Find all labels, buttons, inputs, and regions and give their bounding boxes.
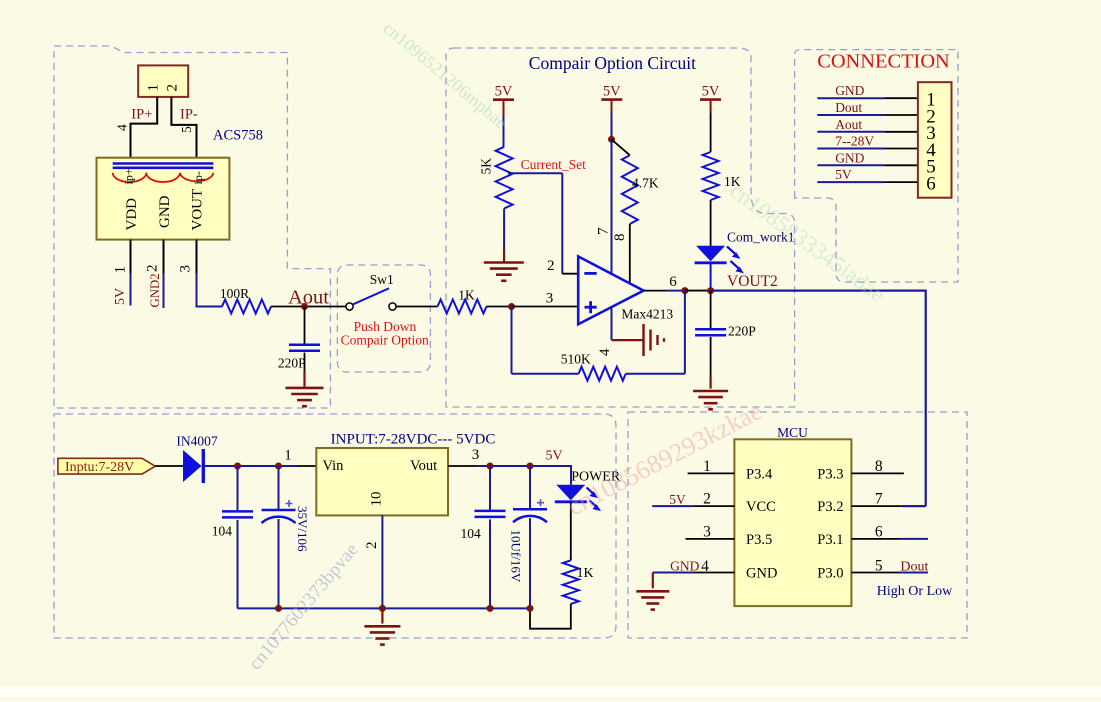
- IC U3 MCU body: [734, 439, 851, 606]
- svg-text:Current_Set: Current_Set: [521, 157, 586, 172]
- wire R5 to LED: [710, 200, 712, 246]
- svg-text:GND: GND: [835, 150, 864, 165]
- pin number 6: [669, 274, 677, 290]
- LED light arrows: [727, 247, 744, 274]
- wire C1 to ground: [304, 353, 306, 387]
- svg-text:IP-: IP-: [180, 107, 198, 123]
- section title MCU: [777, 425, 808, 440]
- svg-text:4: 4: [114, 124, 129, 131]
- net label GND2 (vertical): [148, 273, 162, 307]
- svg-text:P3.5: P3.5: [746, 532, 772, 548]
- dashed region box MCU section: [628, 412, 967, 638]
- wire C104b bottom: [489, 519, 491, 608]
- svg-text:220P: 220P: [728, 324, 756, 339]
- svg-text:2: 2: [703, 491, 711, 508]
- junction node 5V C104b: [487, 463, 494, 470]
- svg-text:35V/106: 35V/106: [295, 506, 310, 552]
- value label 104 (C5): [461, 526, 482, 541]
- connector J2 pin number 6: [926, 173, 936, 194]
- ACS758 pin name VOUT: [189, 189, 205, 231]
- label Push Down: [354, 319, 417, 334]
- net label Aout (connection): [835, 117, 862, 132]
- svg-text:5: 5: [179, 126, 194, 133]
- svg-text:1: 1: [145, 84, 161, 92]
- wire VOUT2 to MCU P3.2 (long net): [711, 291, 926, 507]
- junction node input C104a: [234, 463, 241, 470]
- regulator pin name Vout: [410, 458, 437, 474]
- svg-text:1: 1: [112, 266, 128, 274]
- svg-text:10: 10: [368, 492, 384, 507]
- wire MCU pin8: [851, 472, 904, 474]
- pin number 3 (regulator): [472, 447, 480, 463]
- pin number 3 (MCU): [703, 524, 711, 541]
- pin number 4 (IP+): [114, 124, 129, 131]
- connector J2 pin number 1: [926, 90, 936, 111]
- MCU pin name P3.3: [817, 467, 843, 483]
- value label 220P (C2): [728, 324, 756, 339]
- MCU pin name P3.4: [746, 467, 773, 483]
- svg-text:High Or Low: High Or Low: [877, 584, 953, 599]
- op-amp U1 Max4213 triangle: [578, 256, 643, 324]
- wire MCU pin5: [851, 572, 928, 574]
- svg-text:5V: 5V: [702, 84, 720, 100]
- net label GND (MCU): [670, 558, 699, 573]
- svg-text:2: 2: [547, 258, 555, 274]
- svg-text:GND: GND: [670, 558, 699, 573]
- svg-text:CONNECTION: CONNECTION: [817, 50, 950, 72]
- pin number 4 (vertical): [597, 348, 613, 356]
- wire C10u top: [529, 466, 531, 509]
- svg-text:5: 5: [875, 557, 883, 574]
- svg-text:4: 4: [597, 348, 613, 356]
- resistor 100R: [222, 300, 271, 314]
- svg-text:1K: 1K: [577, 566, 594, 581]
- ground symbol (C1): [286, 388, 324, 406]
- designator Max4213: [621, 307, 673, 322]
- wire op-amp output: [644, 290, 685, 292]
- svg-text:7: 7: [595, 227, 611, 235]
- svg-text:3: 3: [546, 291, 554, 307]
- svg-text:Inptu:7-28V: Inptu:7-28V: [65, 460, 134, 475]
- junction node rail C104b: [487, 605, 494, 612]
- svg-text:ACS758: ACS758: [213, 128, 263, 144]
- dashed region box power supply section: [54, 414, 616, 638]
- capacitor C4 35V/106 polarized: [262, 500, 296, 523]
- svg-text:GND: GND: [157, 195, 173, 228]
- net label 5V (MCU): [669, 492, 686, 507]
- connector J2 pin number 4: [926, 140, 936, 161]
- junction node 5V C10u: [527, 463, 534, 470]
- capacitor C6 10UF/16V polarized: [513, 499, 547, 522]
- pin number 8 (vertical): [612, 234, 628, 242]
- svg-text:Sw1: Sw1: [370, 272, 394, 287]
- section title Compair Option Circuit: [529, 53, 696, 73]
- connector J2 (6-pin) body: [918, 82, 952, 198]
- ground symbol (5K): [484, 263, 524, 281]
- dashed region box CONNECTION section: [795, 50, 958, 282]
- svg-text:4.7K: 4.7K: [632, 176, 659, 191]
- value label 4.7K: [632, 176, 659, 191]
- svg-text:6: 6: [926, 173, 936, 194]
- value label 220P: [278, 356, 306, 371]
- wire banner to D1: [155, 465, 183, 467]
- capacitor C2 220P: [695, 329, 726, 335]
- value label 1K: [458, 288, 475, 303]
- svg-text:5V: 5V: [835, 167, 852, 182]
- ground symbol (power): [364, 626, 400, 644]
- op-amp non-inverting input plus: [585, 301, 597, 313]
- svg-text:7--28V: 7--28V: [835, 134, 874, 149]
- capacitor C3 104: [222, 511, 253, 517]
- wire 5K wiper to op-amp pin2: [508, 173, 578, 274]
- junction node rail reg pin2: [379, 605, 386, 612]
- svg-text:P3.3: P3.3: [817, 467, 843, 483]
- wire C35 bottom: [278, 519, 280, 608]
- svg-text:220P: 220P: [278, 356, 306, 371]
- dashed region box Sw1 switch section: [337, 265, 430, 372]
- connector J1 (2-pin) body: [138, 65, 188, 97]
- svg-text:Dout: Dout: [835, 100, 862, 115]
- wire node to op-amp pin3: [512, 306, 579, 308]
- ACS758 pin name ip+: [122, 168, 136, 184]
- wire C35 top: [278, 466, 280, 510]
- junction node Aout: [301, 303, 308, 310]
- power symbol 5V (1K LED): [700, 84, 721, 114]
- wire J1 pin2 to ACS758 IP-: [171, 97, 196, 158]
- designator IN4007: [176, 434, 217, 449]
- pin number 7 (MCU): [875, 491, 883, 508]
- svg-text:5V: 5V: [495, 84, 513, 100]
- junction node pin3: [508, 303, 515, 310]
- svg-text:8: 8: [875, 458, 883, 475]
- value label 10UF/16V (vertical): [509, 530, 524, 583]
- junction node 6 output: [681, 287, 688, 294]
- wire junction to op-amp pin7: [611, 139, 613, 274]
- pin number 5 (IP-): [179, 126, 194, 133]
- wire MCU pin2 5V stub: [652, 505, 734, 507]
- svg-text:4: 4: [701, 558, 709, 575]
- svg-text:510K: 510K: [561, 352, 591, 367]
- svg-text:VOUT2: VOUT2: [727, 273, 778, 290]
- value label 100R: [220, 286, 249, 301]
- wire 5V to 5K: [503, 116, 505, 147]
- ACS758 pin name GND: [157, 195, 173, 228]
- svg-text:Compair Option Circuit: Compair Option Circuit: [529, 53, 696, 73]
- svg-text:Max4213: Max4213: [621, 307, 673, 322]
- pin number 5 (MCU): [875, 557, 883, 574]
- pin number 8 (MCU): [875, 458, 883, 475]
- svg-text:10Uf/16V: 10Uf/16V: [509, 530, 524, 583]
- wire 100R to Sw1: [271, 306, 346, 308]
- svg-text:IN4007: IN4007: [176, 434, 217, 449]
- wire 5V to junction: [611, 113, 613, 139]
- pin number 3 (op-amp): [546, 291, 554, 307]
- svg-text:100R: 100R: [220, 286, 249, 301]
- net label 7--28V (connection): [835, 134, 874, 149]
- input port Inptu:7-28V banner: [58, 458, 155, 475]
- IC U-ACS758 body: [97, 158, 230, 240]
- switch Sw1 lever: [353, 288, 390, 304]
- wire R2 to node3: [487, 306, 512, 308]
- diode D1 IN4007: [183, 449, 203, 483]
- junction node rail C10u: [527, 605, 534, 612]
- svg-text:IP+: IP+: [131, 107, 152, 123]
- svg-text:GND: GND: [746, 566, 777, 582]
- svg-text:Compair Option: Compair Option: [341, 333, 429, 348]
- resistor R4 4.7K: [622, 155, 638, 224]
- svg-text:GND: GND: [835, 83, 864, 98]
- connector J2 pin number 2: [926, 106, 936, 127]
- regulator pin number 10 (vertical): [368, 492, 384, 507]
- net label IP+: [131, 107, 152, 123]
- ground symbol (MCU): [636, 591, 669, 609]
- wire feedback bottom right: [626, 373, 685, 375]
- connector J2 pin number 3: [926, 123, 936, 144]
- pin number 2: [144, 265, 160, 273]
- regulator pin name Vin: [323, 458, 345, 474]
- value label 510K: [561, 352, 591, 367]
- svg-text:ip-: ip-: [191, 171, 205, 184]
- svg-text:1: 1: [703, 458, 711, 475]
- wire ACS758 VOUT to 100R: [197, 240, 223, 307]
- wire MCU pin3: [686, 538, 735, 540]
- wire op-amp pin4: [612, 307, 644, 340]
- wire regulator pin2 (gnd): [381, 515, 383, 608]
- svg-text:P3.0: P3.0: [817, 566, 843, 582]
- wire C2 to ground: [710, 337, 712, 389]
- resistor R6 510K: [579, 367, 626, 381]
- svg-text:5K: 5K: [478, 158, 493, 175]
- capacitor C1 220P: [289, 345, 320, 351]
- label POWER: [571, 469, 621, 484]
- label Compair Option: [341, 333, 429, 348]
- MCU pin name P3.1: [817, 532, 843, 548]
- net label IP-: [180, 107, 198, 123]
- connector J2 pin number 5: [926, 157, 936, 178]
- connector J1 pin 1 label: [145, 84, 161, 92]
- dashed region box Compair Option Circuit section: [446, 48, 795, 407]
- svg-text:5V: 5V: [603, 84, 621, 100]
- wire CONNECTION net GND pin 5: [817, 164, 918, 166]
- wire 5V to R5 1K: [710, 113, 712, 152]
- value label 35V/106 (vertical): [295, 506, 310, 552]
- svg-text:8: 8: [612, 234, 628, 242]
- svg-text:104: 104: [461, 526, 482, 541]
- wire MCU pin7: [851, 505, 925, 507]
- net label Dout (connection): [835, 100, 862, 115]
- value label 1K (LED): [724, 174, 741, 189]
- wire D1 to regulator Vin: [205, 465, 316, 467]
- wire R7 to rail: [530, 604, 571, 629]
- designator Sw1: [370, 272, 394, 287]
- wire C104a top: [237, 466, 239, 511]
- svg-text:2: 2: [144, 265, 160, 273]
- wire junction to 4.7K: [612, 139, 630, 155]
- svg-text:VOUT: VOUT: [189, 189, 205, 231]
- junction node (5V/4.7K/pin7): [608, 136, 615, 143]
- pin number 7 (vertical): [595, 227, 611, 235]
- svg-text:104: 104: [212, 523, 233, 538]
- capacitor C5 104: [475, 511, 506, 517]
- svg-text:P3.2: P3.2: [817, 499, 843, 515]
- power symbol 5V (4.7K): [601, 84, 622, 114]
- designator ACS758: [213, 128, 263, 144]
- wire VOUT2 node to C2 220P: [710, 291, 712, 329]
- value label 104 (C3): [212, 523, 233, 538]
- net label 5V (connection): [835, 167, 852, 182]
- svg-text:VCC: VCC: [746, 499, 776, 515]
- pin number 1 (MCU): [703, 458, 711, 475]
- value label 5K (vertical): [478, 158, 493, 175]
- wire ground rail (power): [238, 607, 531, 609]
- resistor R2 1K (input): [438, 300, 487, 314]
- MCU pin name P3.0: [817, 566, 843, 582]
- MCU pin name GND: [746, 566, 777, 582]
- wire Aout node to C-220P-1: [304, 307, 306, 345]
- wire feedback up to output: [684, 291, 686, 374]
- wire J1 pin1 to ACS758 IP+: [131, 97, 158, 158]
- net label 5V (vertical): [113, 288, 128, 305]
- svg-text:6: 6: [669, 274, 677, 290]
- white strip bottom: [0, 687, 1101, 697]
- pin number 4 (MCU): [701, 558, 709, 575]
- junction node VOUT2: [707, 287, 714, 294]
- regulator U2 body: [316, 448, 448, 515]
- svg-text:1: 1: [284, 448, 292, 464]
- watermarks (decorative): [245, 18, 890, 674]
- net label Com_work1: [727, 230, 795, 245]
- wire CONNECTION net Dout pin 2: [817, 114, 918, 116]
- net label Aout: [288, 287, 329, 309]
- MCU pin name P3.2: [817, 499, 843, 515]
- svg-text:P3.1: P3.1: [817, 532, 843, 548]
- section title CONNECTION: [817, 50, 950, 72]
- wire MCU pin6: [851, 538, 928, 540]
- section title INPUT:7-28VDC--- 5VDC: [331, 432, 496, 448]
- MCU pin name P3.5: [746, 532, 772, 548]
- svg-text:Vout: Vout: [410, 458, 437, 474]
- label High Or Low: [877, 584, 953, 599]
- ground symbol (C2): [693, 391, 728, 409]
- net label GND (connection): [835, 83, 864, 98]
- wire MCU pin4 GND stub: [653, 572, 735, 574]
- power symbol 5V (5K): [493, 84, 514, 117]
- wire 4.7K to op-amp pin8: [629, 224, 631, 283]
- ground symbol sideways (op-amp pin4): [644, 324, 665, 356]
- svg-text:P3.4: P3.4: [746, 467, 773, 483]
- wire MCU pin1: [688, 472, 735, 474]
- svg-text:GND2: GND2: [148, 273, 162, 307]
- MCU pin name VCC: [746, 499, 776, 515]
- wire feedback bottom left: [512, 373, 579, 375]
- wire C10u bottom: [529, 518, 531, 608]
- net label VOUT2: [727, 273, 778, 290]
- junction node input C35: [275, 463, 282, 470]
- op-amp inverting input minus: [584, 272, 596, 275]
- svg-text:6: 6: [875, 524, 883, 541]
- svg-text:1K: 1K: [458, 288, 475, 303]
- wire 5K to ground: [503, 209, 505, 262]
- junction node rail C35: [275, 605, 282, 612]
- pin number 2 (MCU): [703, 491, 711, 508]
- svg-text:MCU: MCU: [777, 425, 808, 440]
- svg-text:Vin: Vin: [323, 458, 345, 474]
- svg-text:3: 3: [472, 447, 480, 463]
- wire output to LED node: [685, 290, 711, 292]
- svg-text:Aout: Aout: [288, 287, 329, 309]
- wire GND stub down: [652, 573, 654, 589]
- svg-text:5V: 5V: [113, 288, 128, 305]
- wire LED to R7: [570, 502, 572, 561]
- net label GND (connection): [835, 150, 864, 165]
- net label Dout: [900, 560, 928, 575]
- wire Vout to 5V rail: [448, 466, 571, 485]
- svg-text:2: 2: [364, 542, 380, 550]
- wire CONNECTION net GND pin 1: [817, 97, 918, 99]
- svg-text:ip+: ip+: [122, 168, 136, 184]
- ACS758 pin name ip-: [191, 171, 205, 184]
- pin number 2 (op-amp): [547, 258, 555, 274]
- svg-text:VDD: VDD: [124, 198, 140, 231]
- wire ACS758 GND pin stub: [163, 240, 165, 308]
- switch Sw1 contacts: [346, 303, 396, 310]
- wire ACS758 VDD pin stub: [130, 240, 132, 306]
- wire CONNECTION net 7--28V pin 4: [817, 148, 918, 150]
- ACS758 primary conductor bars: [113, 164, 214, 168]
- LED Com_work1: [695, 246, 727, 263]
- wire Sw1 to R-1K: [396, 306, 437, 308]
- svg-text:7: 7: [875, 491, 883, 508]
- wire feedback from node3 down: [511, 307, 513, 374]
- wire reg pin2 to ground: [381, 608, 383, 623]
- pin number 1: [112, 266, 128, 274]
- net label Current_Set: [521, 157, 586, 172]
- dashed region box ACS758 sensor section: [54, 46, 330, 408]
- wire CONNECTION net Aout pin 3: [817, 131, 918, 133]
- svg-text:Aout: Aout: [835, 117, 862, 132]
- pin number 2 (regulator, vertical): [364, 542, 380, 550]
- resistor R7 1K (power): [563, 560, 579, 604]
- resistor R3 5K: [496, 147, 513, 209]
- ACS758 pin name VDD: [124, 198, 140, 231]
- pin number 3: [177, 265, 193, 273]
- svg-text:5V: 5V: [669, 492, 686, 507]
- svg-text:5V: 5V: [545, 449, 562, 464]
- net label 5V (power out): [545, 449, 562, 464]
- ACS758 red wave (hall element): [113, 173, 214, 182]
- pin number 1 (regulator): [284, 448, 292, 464]
- svg-text:3: 3: [703, 524, 711, 541]
- wire LED to VOUT2 node: [710, 263, 712, 290]
- svg-text:Dout: Dout: [900, 560, 928, 575]
- LED POWER light arrows: [587, 488, 602, 512]
- wire C104a bottom: [237, 520, 239, 609]
- svg-text:2: 2: [164, 84, 180, 92]
- pin number 6 (MCU): [875, 524, 883, 541]
- wire C104b top: [489, 466, 491, 511]
- svg-text:3: 3: [177, 265, 193, 273]
- wire CONNECTION net 5V pin 6: [817, 181, 918, 183]
- value label 1K (power): [577, 566, 594, 581]
- connector J1 pin 2 label: [164, 84, 180, 92]
- resistor R5 1K: [703, 152, 719, 200]
- svg-text:INPUT:7-28VDC--- 5VDC: INPUT:7-28VDC--- 5VDC: [331, 432, 496, 448]
- LED D2 POWER: [555, 485, 587, 502]
